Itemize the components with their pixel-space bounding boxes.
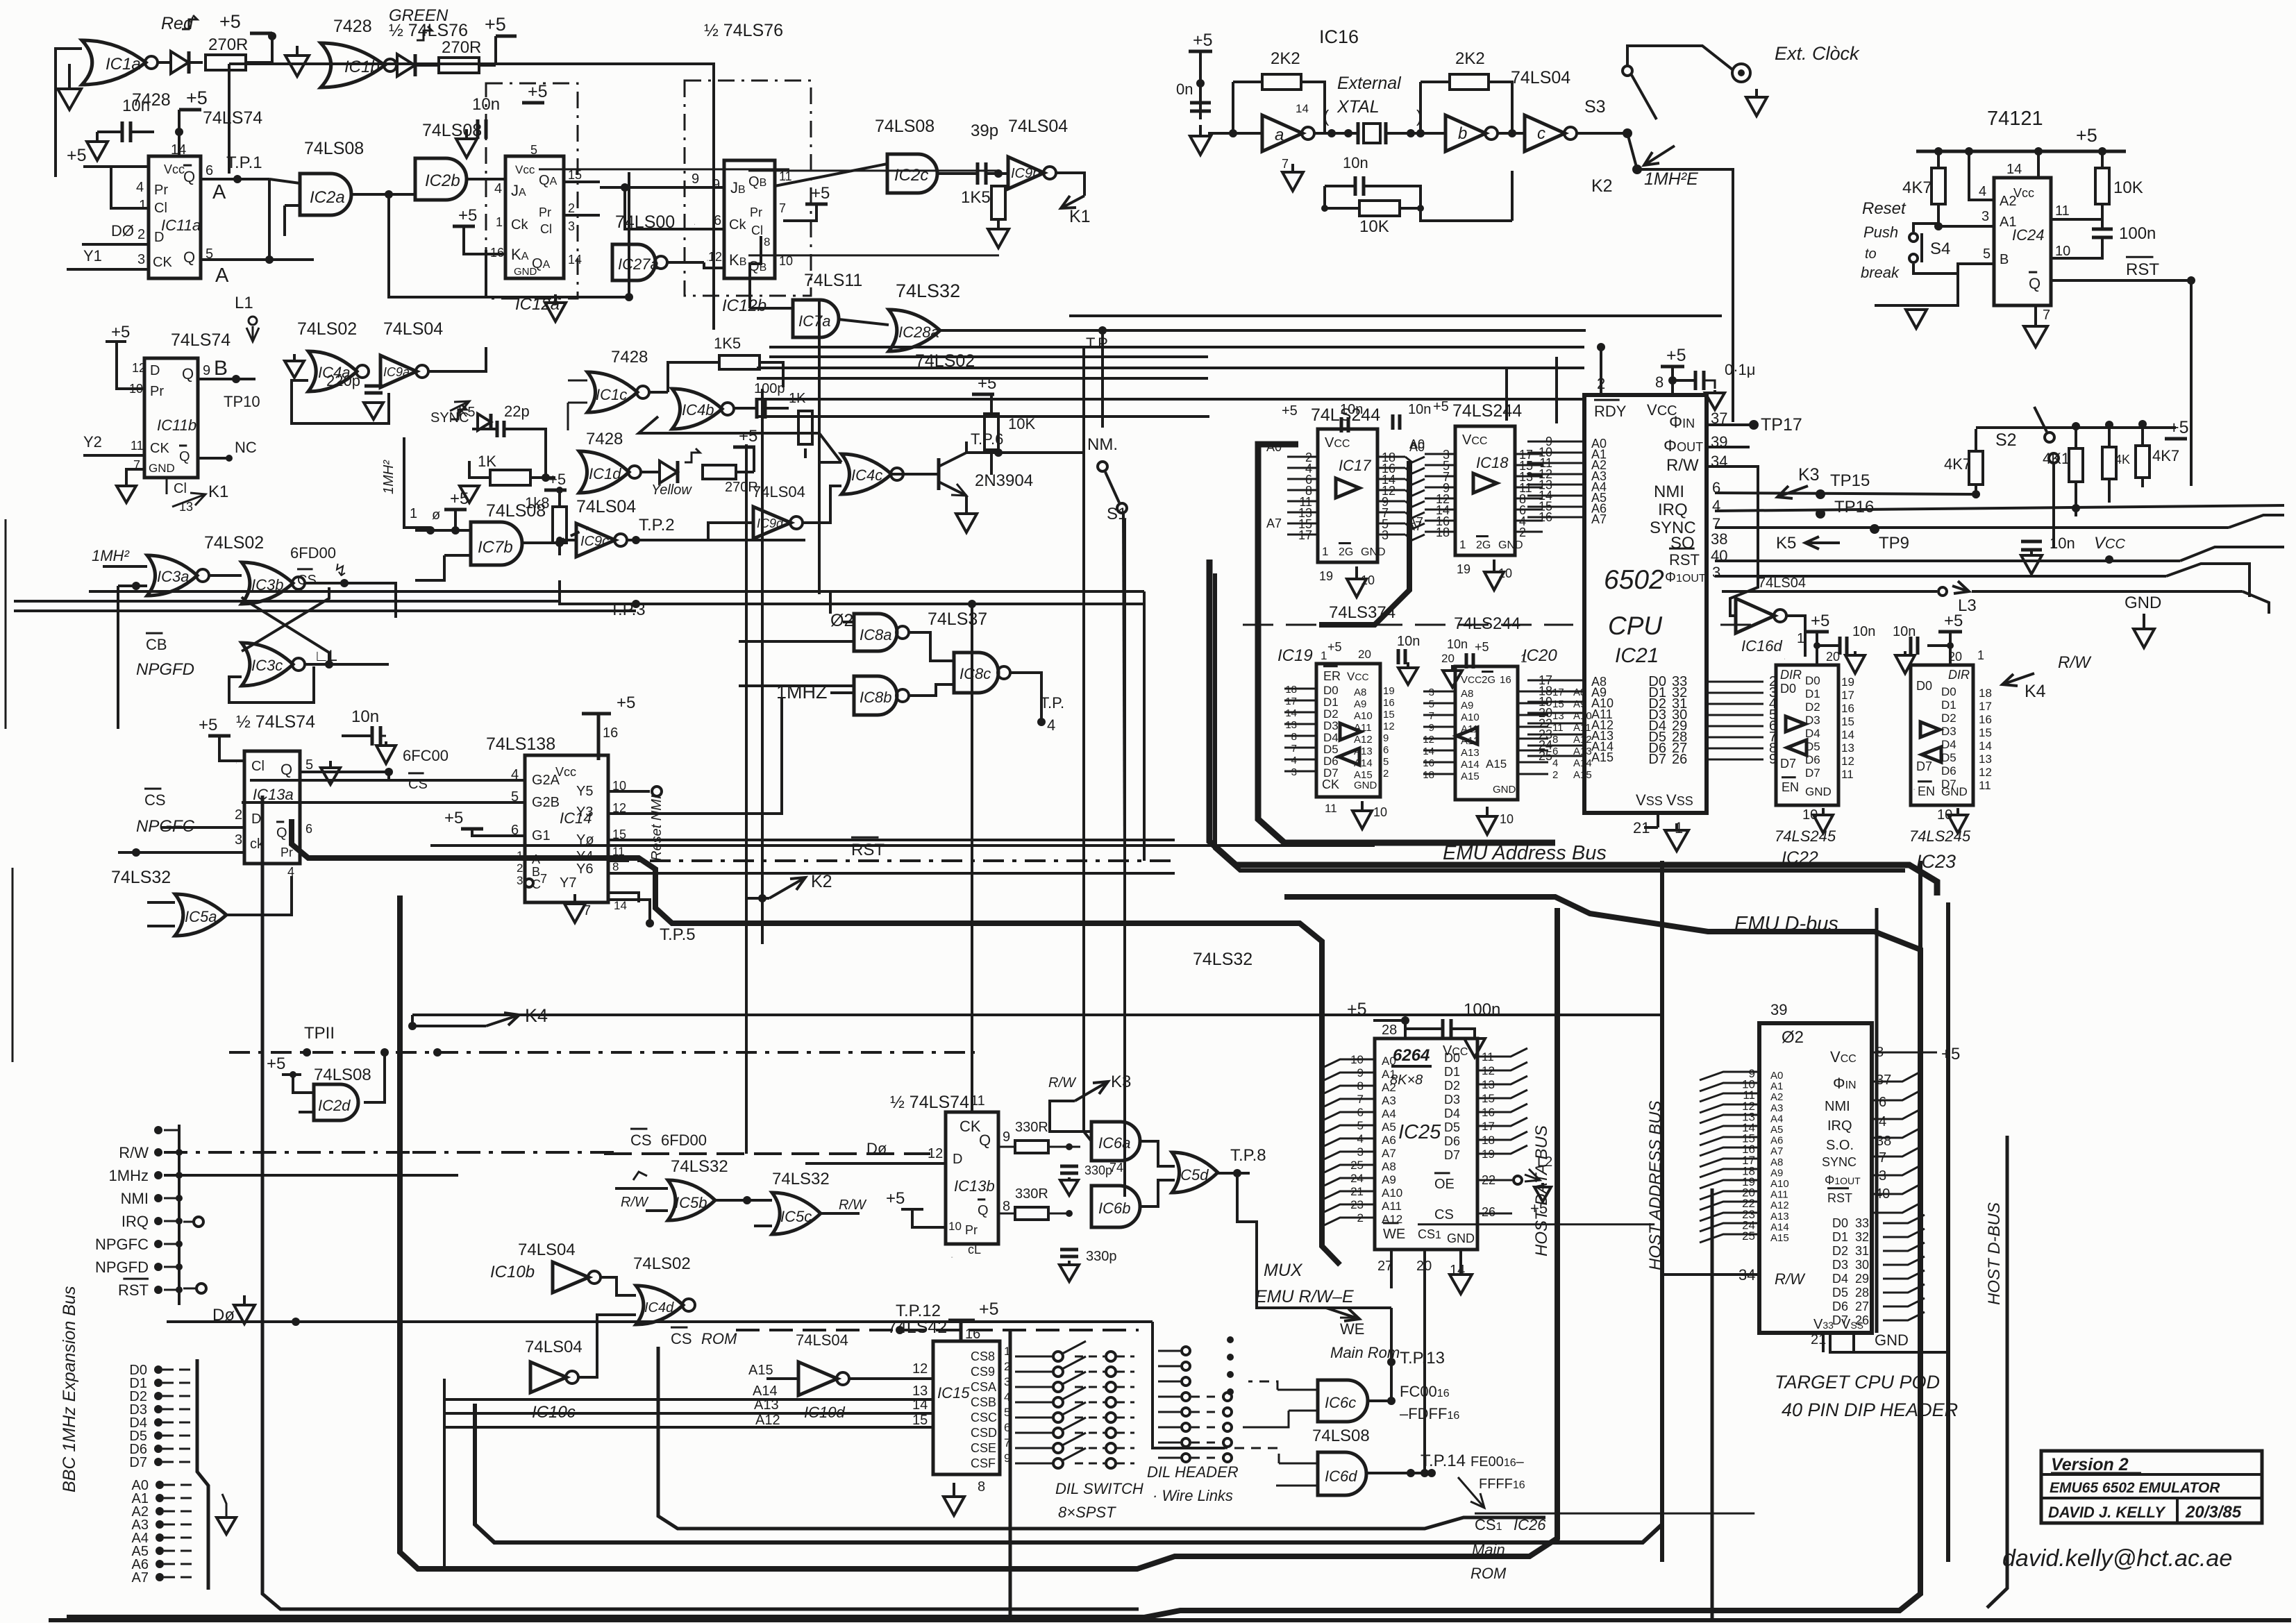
- svg-text:TP17: TP17: [1761, 415, 1802, 435]
- wire 1k8 down: [558, 543, 561, 555]
- svg-text:+5: +5: [1327, 640, 1342, 654]
- svg-text:74LS08: 74LS08: [314, 1066, 371, 1084]
- svg-text:A12: A12: [1354, 734, 1373, 746]
- svg-text:IC9a: IC9a: [383, 365, 410, 379]
- svg-text:74LS04: 74LS04: [525, 1338, 583, 1356]
- svg-text:EN: EN: [1782, 780, 1799, 794]
- svg-text:6: 6: [1383, 744, 1389, 756]
- LED yellow: [640, 471, 658, 473]
- wire A node vert: [628, 172, 630, 298]
- svg-text:D7: D7: [1648, 752, 1666, 767]
- svg-text:IC1b: IC1b: [344, 58, 380, 76]
- wire IC3c out: [304, 663, 389, 666]
- svg-text:A15: A15: [1770, 1232, 1789, 1244]
- wire rw dash row: [164, 1151, 412, 1154]
- svg-text:4K7: 4K7: [2152, 447, 2179, 464]
- svg-text:A6: A6: [1770, 1135, 1783, 1147]
- svg-text:D3: D3: [1832, 1258, 1848, 1272]
- wire bundle y455: [1069, 314, 1722, 317]
- svg-text:4K7: 4K7: [1902, 178, 1932, 197]
- wire +5 to Pr: [83, 165, 149, 168]
- svg-text:D1: D1: [1805, 687, 1820, 700]
- bus TB5 host addr: [475, 861, 1662, 1542]
- switch S1: [1098, 462, 1107, 471]
- svg-text:1: 1: [496, 215, 503, 229]
- svg-text:+5: +5: [186, 87, 208, 108]
- svg-text:A14: A14: [1770, 1221, 1789, 1233]
- svg-text:Q: Q: [276, 825, 287, 841]
- svg-text:19: 19: [1841, 675, 1854, 689]
- svg-text:16: 16: [1383, 697, 1395, 709]
- svg-text:CSD: CSD: [971, 1426, 997, 1440]
- svg-text:CSF: CSF: [971, 1456, 996, 1470]
- connector circles: [194, 1217, 203, 1227]
- wire cs fd00: [604, 1152, 930, 1155]
- svg-text:IC10b: IC10b: [490, 1263, 535, 1281]
- title box: [2041, 1451, 2262, 1523]
- wire G2A in: [250, 779, 525, 782]
- cap 0.1u cpu: [1673, 379, 1695, 382]
- svg-text:9: 9: [692, 171, 699, 187]
- wire IC13a q seg: [387, 772, 390, 780]
- bus TB4 host data: [400, 895, 1557, 1569]
- svg-text:K4: K4: [2025, 682, 2046, 701]
- wire 1K left: [469, 461, 490, 478]
- svg-text:VSS: VSS: [1636, 791, 1663, 809]
- svg-text:7: 7: [779, 201, 786, 215]
- svg-text:VSS: VSS: [1841, 1317, 1863, 1332]
- svg-text:11: 11: [779, 169, 792, 183]
- svg-text:13: 13: [1552, 710, 1564, 722]
- svg-text:D0: D0: [1780, 682, 1796, 696]
- wire S3 up: [1627, 46, 1732, 69]
- svg-text:RST: RST: [118, 1281, 149, 1299]
- wire pkg outline a: [486, 83, 578, 298]
- wire osc c out: [1576, 132, 1627, 135]
- svg-text:14: 14: [614, 899, 627, 912]
- wire IC6b out: [1140, 1180, 1175, 1206]
- svg-text:CS: CS: [144, 791, 166, 809]
- svg-text:6FD00: 6FD00: [661, 1132, 707, 1149]
- wire IC9d out: [802, 486, 841, 523]
- arrow WE: [1326, 1308, 1359, 1319]
- svg-text:13: 13: [912, 1384, 928, 1399]
- svg-text:+5: +5: [67, 146, 87, 165]
- flip-flop IC11b box: [144, 358, 198, 478]
- svg-text:IC1d: IC1d: [589, 465, 621, 482]
- and-gate IC6b: [1091, 1186, 1140, 1227]
- svg-text:D4: D4: [1832, 1272, 1848, 1286]
- svg-text:10: 10: [2055, 244, 2070, 259]
- resistor 270R yellow: [703, 465, 736, 479]
- svg-text:IC2b: IC2b: [425, 171, 460, 190]
- svg-text:10n: 10n: [1397, 634, 1420, 649]
- wire top-left frame: [229, 64, 714, 330]
- svg-text:12: 12: [708, 250, 722, 264]
- svg-text:74LS32: 74LS32: [772, 1170, 830, 1188]
- svg-text:FE0016–: FE0016–: [1470, 1454, 1525, 1470]
- svg-text:T.P.: T.P.: [1040, 694, 1064, 712]
- svg-text:SO: SO: [1670, 534, 1695, 553]
- svg-text:D3: D3: [1444, 1093, 1460, 1107]
- svg-text:4K1: 4K1: [2043, 450, 2070, 467]
- svg-text:D0: D0: [1832, 1216, 1848, 1230]
- svg-text:T.P.6: T.P.6: [971, 430, 1003, 448]
- svg-text:Cl: Cl: [174, 481, 187, 496]
- cap 10n vcc: [2021, 540, 2042, 544]
- svg-text:Ext. Clòck: Ext. Clòck: [1775, 43, 1860, 64]
- wire IC28a out long: [940, 329, 1586, 332]
- svg-text:74LS02: 74LS02: [297, 319, 357, 339]
- wire vert 1588: [1101, 330, 1104, 428]
- svg-text:D6: D6: [1941, 764, 1956, 777]
- svg-text:CSE: CSE: [971, 1441, 996, 1455]
- svg-text:28: 28: [1855, 1286, 1869, 1300]
- connector extra dots: [154, 1126, 162, 1134]
- wire B in: [1913, 264, 1994, 274]
- gnd IC11b: [126, 469, 144, 486]
- svg-text:7: 7: [1879, 1150, 1886, 1166]
- svg-text:4: 4: [136, 180, 144, 195]
- wire nmi row: [1707, 490, 1976, 498]
- cap 10n IC23: [1927, 644, 1950, 647]
- IC23 tris: [1920, 722, 1940, 737]
- svg-text:74LS02: 74LS02: [633, 1254, 691, 1273]
- svg-text:GND: GND: [1361, 546, 1386, 558]
- svg-text:+5: +5: [617, 693, 635, 712]
- svg-text:IC11b: IC11b: [157, 417, 196, 434]
- gnd IC14: [573, 894, 576, 904]
- wire so row: [1715, 560, 2180, 562]
- svg-text:T.P.1: T.P.1: [226, 153, 262, 172]
- inverter IC9a: [380, 355, 417, 387]
- svg-text:VCC: VCC: [2094, 534, 2125, 553]
- gnd IC24: [2034, 315, 2037, 326]
- svg-text:Yellow: Yellow: [651, 482, 692, 498]
- wire tp11 dash2: [486, 1051, 975, 1054]
- svg-text:74LS32: 74LS32: [111, 868, 171, 887]
- wire vert 1561: [1084, 347, 1091, 1141]
- svg-text:K5: K5: [1776, 534, 1796, 553]
- or-gate IC1a: [82, 40, 146, 85]
- svg-text:D1: D1: [1941, 698, 1956, 712]
- wire IC8a in2: [739, 640, 854, 643]
- svg-text:20: 20: [1826, 650, 1840, 664]
- nor-gate IC3a: [147, 555, 197, 596]
- svg-text:IC16d: IC16d: [1741, 637, 1782, 655]
- connector Ext Clock: [1732, 64, 1750, 82]
- svg-text:15: 15: [1841, 715, 1854, 728]
- wire 1mhz row: [164, 1174, 458, 1177]
- nand-gate IC8b: [854, 676, 897, 715]
- svg-text:A14: A14: [1573, 757, 1592, 769]
- arrow K4 mid: [486, 1015, 519, 1026]
- svg-text:11: 11: [1552, 722, 1564, 734]
- and-gate IC2d: [314, 1084, 358, 1120]
- bus fan IC19: [1250, 694, 1283, 805]
- test point T.P.5: [646, 919, 654, 927]
- svg-text:MUX: MUX: [1264, 1261, 1303, 1280]
- svg-text:14: 14: [568, 253, 582, 267]
- svg-text:Y1: Y1: [83, 247, 102, 264]
- svg-text:IC5a: IC5a: [185, 908, 217, 925]
- svg-text:Dø: Dø: [866, 1140, 887, 1157]
- wire rw down: [1707, 466, 1758, 616]
- svg-text:VSS: VSS: [1666, 791, 1693, 809]
- svg-text:VCC: VCC: [1347, 670, 1369, 683]
- wire Y1 out: [608, 900, 650, 923]
- gnd IC4a: [293, 354, 296, 361]
- test point TP9: [1870, 524, 1879, 534]
- wire NC: [198, 457, 229, 460]
- svg-text:A12: A12: [1770, 1200, 1789, 1211]
- svg-text:T.P: T.P: [1086, 335, 1108, 352]
- svg-text:10: 10: [1373, 805, 1387, 819]
- svg-text:+5: +5: [1941, 1045, 1960, 1063]
- wire IC2d pins: [293, 1075, 314, 1093]
- svg-text:+5: +5: [199, 716, 217, 734]
- nor-gate IC4a: [308, 351, 357, 392]
- svg-text:GND: GND: [1941, 785, 1968, 798]
- wire QA15 right: [564, 180, 600, 183]
- svg-text:A2: A2: [2000, 194, 2016, 209]
- bus emu addr spine: [1209, 560, 1937, 895]
- svg-text:16: 16: [603, 725, 618, 741]
- svg-text:74LS37: 74LS37: [928, 609, 987, 629]
- svg-text:1: 1: [1322, 545, 1328, 558]
- svg-text:HOST DATA BUS: HOST DATA BUS: [1532, 1125, 1551, 1256]
- svg-text:NPGFC: NPGFC: [95, 1236, 149, 1253]
- flip-flop IC13b box: [946, 1112, 998, 1244]
- svg-text:9: 9: [1003, 1129, 1010, 1145]
- cap 100n 121: [2092, 228, 2113, 231]
- svg-text:12: 12: [928, 1146, 943, 1161]
- svg-text:Reset NMI: Reset NMI: [649, 795, 664, 861]
- wire 330R to IC6a: [1069, 1132, 1091, 1147]
- wire IC27a out: [667, 261, 704, 264]
- and-gate IC7a: [793, 300, 839, 337]
- wire vert 1455: [1009, 1330, 1012, 1620]
- IC19 tris: [1340, 723, 1361, 740]
- svg-text:A15: A15: [1461, 771, 1480, 782]
- svg-text:A4: A4: [1382, 1107, 1396, 1120]
- wire vert 1648: [1143, 591, 1146, 861]
- svg-text:D7: D7: [1805, 766, 1820, 780]
- svg-text:CS: CS: [671, 1330, 692, 1347]
- wire osc a in: [1233, 82, 1262, 133]
- svg-text:+5: +5: [886, 1189, 905, 1208]
- wire bundle y600: [757, 415, 1209, 418]
- svg-text:DØ: DØ: [111, 222, 134, 239]
- svg-text:D7: D7: [1444, 1148, 1460, 1162]
- svg-text:IC2a: IC2a: [310, 188, 345, 207]
- and-gate IC6a: [1091, 1122, 1140, 1161]
- svg-text:Vcc: Vcc: [164, 162, 185, 176]
- svg-text:10n: 10n: [351, 707, 379, 726]
- wire we main rom: [1391, 1308, 1392, 1330]
- svg-text:A10: A10: [1573, 710, 1592, 722]
- svg-text:GND: GND: [2125, 594, 2161, 612]
- svg-text:74LS04: 74LS04: [518, 1241, 576, 1259]
- svg-text:5: 5: [305, 757, 313, 773]
- buffer IC20 box: [1455, 666, 1518, 800]
- svg-text:100n: 100n: [2119, 224, 2156, 243]
- svg-text:Q: Q: [183, 249, 195, 266]
- test point TP16: [1816, 509, 1825, 519]
- svg-text:A11: A11: [1382, 1200, 1402, 1213]
- wire IC3a out: [208, 574, 242, 577]
- svg-text:RST: RST: [1669, 551, 1700, 569]
- wire Y3 to ResetNMI: [608, 698, 782, 814]
- svg-text:HOST D-BUS: HOST D-BUS: [1985, 1202, 2004, 1305]
- svg-text:NMI: NMI: [121, 1190, 149, 1207]
- wire TP1 right: [268, 179, 271, 260]
- wire bundle y530: [757, 367, 1584, 369]
- svg-text:74LS08: 74LS08: [304, 139, 364, 158]
- wire IC2a in: [269, 179, 300, 183]
- svg-text:A8: A8: [1354, 687, 1366, 698]
- svg-text:1k8: 1k8: [525, 494, 549, 512]
- wire phi-out: [1707, 330, 1791, 447]
- svg-text:b: b: [1458, 124, 1467, 143]
- or-gate IC5a: [175, 894, 226, 936]
- svg-text:S4: S4: [1930, 239, 1950, 258]
- svg-text:IRQ: IRQ: [1658, 501, 1688, 519]
- svg-text:330R: 330R: [1015, 1186, 1048, 1202]
- svg-text:2: 2: [568, 201, 575, 215]
- svg-text:A9: A9: [1382, 1173, 1396, 1186]
- dil header dots col: [1227, 1336, 1234, 1343]
- svg-text:A9: A9: [1354, 698, 1366, 710]
- svg-text:11: 11: [1979, 779, 1991, 792]
- svg-text:1: 1: [139, 198, 146, 213]
- svg-text:S.O.: S.O.: [1826, 1138, 1854, 1153]
- gnd 13a: [329, 761, 332, 768]
- svg-text:GND: GND: [1498, 539, 1523, 551]
- svg-text:1: 1: [1321, 649, 1327, 662]
- svg-text:A15: A15: [748, 1363, 773, 1378]
- wire a-lines vert: [443, 1379, 446, 1570]
- latch IC19 box: [1316, 664, 1380, 797]
- wire osc a out: [1314, 132, 1348, 135]
- dash row 374: [1243, 624, 1573, 626]
- svg-text:8×SPST: 8×SPST: [1058, 1504, 1116, 1521]
- svg-text:IC8b: IC8b: [860, 689, 891, 706]
- svg-text:IC16: IC16: [1319, 26, 1359, 47]
- svg-text:6FC00: 6FC00: [403, 747, 449, 764]
- svg-text:A8: A8: [1770, 1157, 1783, 1168]
- svg-text:K3: K3: [1798, 465, 1820, 485]
- pullup wire A2: [1969, 151, 1994, 200]
- wire K2 down: [1637, 169, 1733, 422]
- svg-text:GND: GND: [1805, 785, 1832, 798]
- svg-text:D0: D0: [1444, 1051, 1460, 1065]
- buffer IC18: [1455, 426, 1515, 555]
- svg-text:IC5c: IC5c: [780, 1208, 812, 1225]
- svg-text:1: 1: [1977, 648, 1984, 662]
- wire pod right vert1: [1920, 902, 1921, 1072]
- test point T.P.6: [994, 448, 1003, 457]
- diode sync: [478, 414, 491, 430]
- wire Y2 out: [608, 893, 639, 902]
- svg-text:A7: A7: [1382, 1147, 1396, 1160]
- cap 330p b: [1060, 1248, 1078, 1252]
- bus TB6: [658, 1347, 1545, 1529]
- svg-text:8: 8: [1003, 1199, 1010, 1214]
- wire TP3 node: [560, 580, 636, 604]
- svg-text:8: 8: [1552, 734, 1558, 746]
- wire IC4a loop: [292, 380, 389, 423]
- svg-text:Vcc: Vcc: [555, 765, 576, 779]
- svg-text:EMU R/W–E: EMU R/W–E: [1255, 1287, 1354, 1306]
- svg-text:IC7b: IC7b: [478, 538, 513, 557]
- svg-text:GND: GND: [1354, 780, 1377, 791]
- svg-text:74LS32: 74LS32: [896, 280, 960, 301]
- svg-text:20: 20: [1441, 652, 1455, 665]
- svg-text:+5: +5: [979, 1300, 999, 1319]
- bus TB8: [1711, 1188, 1714, 1620]
- wire sync row: [1715, 526, 2229, 529]
- wire k4 long: [412, 1014, 1662, 1016]
- svg-text:NPGFD: NPGFD: [95, 1259, 149, 1276]
- svg-text:IC17: IC17: [1339, 457, 1371, 474]
- svg-text:74LS32: 74LS32: [671, 1157, 728, 1176]
- cap 10n IC22: [1817, 644, 1840, 647]
- svg-text:2G: 2G: [1339, 546, 1353, 558]
- bus TB3 emu d-bus: [67, 897, 1920, 1617]
- svg-text:Y2: Y2: [83, 433, 102, 451]
- svg-text:1: 1: [1459, 538, 1466, 551]
- svg-text:15: 15: [1979, 726, 1992, 739]
- svg-text:1K5: 1K5: [714, 335, 741, 352]
- wire pair y866: [14, 600, 560, 603]
- wire IC5b in: [615, 1187, 668, 1190]
- svg-text:Cl: Cl: [540, 222, 552, 236]
- wire QB11 to IC2c: [775, 164, 887, 186]
- pod box: [1759, 1023, 1872, 1333]
- wire CK input: [67, 268, 149, 271]
- or-gate IC5b: [668, 1180, 715, 1220]
- svg-text:10n: 10n: [2050, 535, 2075, 552]
- svg-text:A0: A0: [1382, 1054, 1396, 1068]
- wire bundle y545: [757, 377, 1208, 380]
- svg-text:14: 14: [1296, 102, 1309, 115]
- wire IC5a out: [226, 876, 292, 915]
- wire IC1d loop: [476, 444, 579, 460]
- wire conn rail D: [197, 1359, 208, 1590]
- wire bundle drop1: [1505, 368, 1508, 421]
- inverter IC10b: [553, 1262, 589, 1293]
- bus TB1 emu addr left: [292, 819, 1340, 1265]
- svg-text:4: 4: [1552, 757, 1558, 769]
- svg-text:+5: +5: [458, 206, 477, 225]
- svg-text:6: 6: [1879, 1095, 1886, 1110]
- svg-text:IC18: IC18: [1476, 454, 1509, 471]
- svg-text:Y7: Y7: [560, 875, 576, 891]
- resistor 4K7 p3: [2102, 447, 2116, 479]
- svg-text:2N3904: 2N3904: [975, 471, 1033, 490]
- svg-text:c: c: [1537, 124, 1545, 143]
- svg-text:4: 4: [1879, 1114, 1886, 1129]
- svg-text:NMI: NMI: [1825, 1099, 1850, 1114]
- svg-text:74LS42: 74LS42: [887, 1318, 947, 1337]
- wire IC10c loop: [578, 1315, 636, 1377]
- svg-text:a: a: [1275, 126, 1284, 144]
- svg-text:B: B: [532, 865, 540, 879]
- svg-text:RDY: RDY: [1594, 403, 1627, 420]
- svg-text:IC15: IC15: [937, 1384, 970, 1402]
- svg-text:DIL HEADER: DIL HEADER: [1147, 1463, 1239, 1481]
